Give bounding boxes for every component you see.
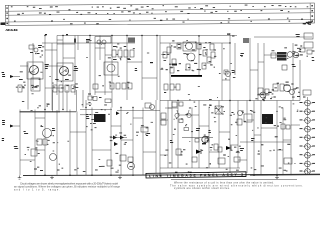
svg-text:AVR & LINE: AVR & LINE xyxy=(5,28,18,32)
svg-text:symbols are shown within small: symbols are shown within small circles. xyxy=(174,187,230,190)
svg-text:and I to 1 to 5, range.: and I to 1 to 5, range. xyxy=(14,189,60,192)
